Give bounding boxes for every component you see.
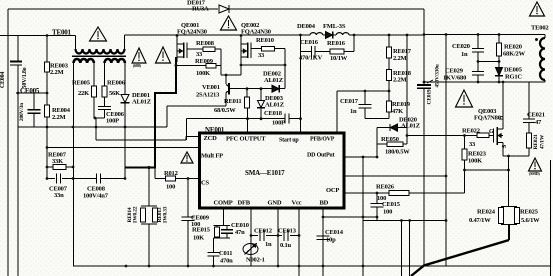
wire DD pin row [344, 156, 377, 158]
node DE001 CE008 [124, 177, 127, 180]
diode DE001 [124, 94, 126, 103]
svg-text:180/0.5W: 180/0.5W [385, 149, 410, 156]
node Vcc y235 [298, 234, 301, 237]
svg-text:CS: CS [201, 180, 209, 187]
node CE017 top [364, 90, 367, 93]
svg-text:CE014: CE014 [325, 229, 344, 236]
node PFC riser [246, 117, 249, 120]
wire thick QE001 source [175, 57, 177, 93]
svg-text:33K: 33K [52, 158, 63, 165]
transistor VE001 [225, 75, 227, 84]
node y61 link [477, 60, 480, 63]
wire CE018 row [187, 118, 286, 120]
svg-text:10/1W: 10/1W [330, 55, 348, 62]
node GND bus [277, 265, 280, 268]
svg-text:1KV/680: 1KV/680 [443, 75, 466, 82]
svg-text:RE022: RE022 [462, 128, 480, 135]
capacitor CE018 [284, 114, 286, 124]
svg-text:1n: 1n [461, 51, 468, 58]
wire rail N lower [17, 65, 19, 276]
node RE023 top [463, 134, 466, 137]
svg-text:10K: 10K [193, 235, 204, 242]
wire COMP pin [223, 208, 225, 226]
wire thick y167 [125, 166, 156, 168]
wire top bus left segment [8, 8, 218, 10]
svg-text:1n: 1n [265, 241, 272, 248]
wire DFB pin [250, 208, 252, 266]
resistor RE007 [53, 165, 66, 170]
svg-text:C011: C011 [219, 250, 232, 257]
diode DE020 [377, 127, 390, 129]
node CE009 top [187, 177, 190, 180]
svg-text:47n: 47n [235, 229, 245, 236]
capacitor CE008 [96, 174, 98, 184]
svg-text:VE001: VE001 [202, 84, 220, 91]
svg-text:RE008: RE008 [196, 40, 215, 47]
svg-text:RU3A: RU3A [192, 6, 209, 13]
node x446 [445, 175, 448, 178]
wire RE009 row [176, 65, 206, 67]
node QE001 drain [176, 34, 179, 37]
resistor RE013 [153, 208, 158, 222]
inductor DE004 bumps left [310, 33, 323, 35]
transformer TE001 secondary B lead right [124, 63, 126, 94]
transformer TE001 secondary A [74, 59, 94, 63]
svg-text:PFB/OVP: PFB/OVP [310, 137, 335, 143]
svg-text:100K: 100K [468, 158, 482, 165]
wire CE007 row [47, 178, 55, 180]
wire DE020 right node [406, 128, 408, 145]
svg-text:0.47/1W: 0.47/1W [469, 217, 491, 224]
svg-text:FQA7N80: FQA7N80 [474, 115, 501, 122]
svg-text:CE029: CE029 [445, 68, 464, 75]
capacitor CE009 [187, 179, 189, 218]
svg-text:50V/1.8o: 50V/1.8o [22, 67, 28, 88]
capacitor CE015 [376, 193, 378, 204]
wire x47 lower [46, 117, 48, 179]
wire BD pin [322, 208, 324, 276]
svg-text:DD OutPut: DD OutPut [307, 153, 335, 159]
svg-text:100V/4n7: 100V/4n7 [83, 193, 109, 200]
transformer TE001 secondary A lead [93, 63, 95, 86]
wire OCP row [344, 192, 389, 194]
wire ZCD y140 [96, 139, 186, 141]
node x47 93 [46, 92, 49, 95]
node VE001 ce [225, 74, 228, 77]
diode DE003 [260, 89, 262, 101]
wire out1 [401, 221, 403, 276]
svg-text:100K: 100K [196, 70, 210, 77]
resistor RE020 [498, 35, 500, 44]
wire x363 drop [362, 157, 364, 276]
resistor RE024 [501, 206, 517, 208]
node BD y217 [322, 216, 325, 219]
transistor QE003 [493, 129, 495, 143]
wire CE005 top [16, 92, 47, 94]
transistor QE001 [176, 36, 178, 63]
svg-text:2SA1213: 2SA1213 [196, 92, 220, 99]
wire R012 leads [155, 178, 166, 180]
svg-text:Mult FP: Mult FP [201, 153, 223, 160]
wire y82 row [424, 81, 541, 83]
wire x446 column [445, 35, 447, 267]
resistor RE025 [515, 208, 520, 224]
wire source row y156 [503, 155, 529, 157]
svg-text:RE006: RE006 [107, 80, 126, 87]
svg-text:47K: 47K [392, 108, 403, 115]
svg-text:CE013: CE013 [278, 228, 297, 235]
svg-text:RG1C: RG1C [505, 74, 522, 81]
capacitor CE019 [423, 35, 425, 85]
svg-text:470n: 470n [220, 258, 233, 265]
node CE016 branch [299, 34, 302, 37]
warning triangle T1 [90, 27, 107, 41]
resistor RE026 [389, 191, 409, 196]
resistor R012 [166, 176, 176, 181]
node OCP CE015 [376, 192, 379, 195]
warning triangle T4 [221, 16, 237, 30]
wire RE006 bottom [104, 97, 106, 107]
resistor RE021 [527, 133, 532, 148]
node Vcc bus [298, 265, 301, 268]
svg-text:CE016: CE016 [300, 39, 319, 46]
connector N002-1 [243, 244, 258, 255]
node CE005 top left [17, 92, 20, 95]
resistor RE023 [464, 136, 466, 150]
svg-text:2.2M: 2.2M [50, 69, 64, 76]
resistor RE014 [141, 205, 157, 207]
node GND y235 [277, 234, 280, 237]
svg-text:0.1u: 0.1u [280, 242, 292, 249]
node RE019 top [388, 90, 391, 93]
wire y220 row [363, 220, 446, 222]
IC NE001 SMA-E1017 [200, 133, 345, 208]
wire RE005 bottom [93, 97, 95, 118]
wire thick diagonal [411, 240, 509, 276]
svg-text:CE021: CE021 [527, 112, 545, 119]
warning triangle T7 [181, 152, 193, 163]
svg-text:N002-1: N002-1 [246, 257, 265, 264]
resistor RE011 [246, 89, 248, 97]
warning triangle T5 [456, 90, 473, 107]
wire x47 mid [46, 72, 48, 105]
transformer TE001 secondary B lead [104, 63, 106, 86]
svg-text:2.2M: 2.2M [393, 77, 407, 84]
wire CE008 row [73, 178, 96, 180]
svg-text:CE017: CE017 [340, 98, 359, 105]
wire y127 bus [18, 126, 167, 128]
svg-text:DE005: DE005 [504, 67, 523, 74]
node RE017 bus [388, 34, 391, 37]
wire R012 drop [154, 168, 156, 179]
resistor RE003 [45, 62, 50, 72]
wire x509 drop [508, 156, 510, 207]
capacitor CE007 [56, 174, 58, 184]
svg-text:100P: 100P [272, 120, 285, 127]
svg-text:GND: GND [268, 200, 282, 207]
svg-text:68K/2W: 68K/2W [503, 51, 526, 58]
wire staircase CE006 [94, 117, 105, 119]
resistor RE016 [330, 49, 344, 54]
node CE006 junction [94, 117, 97, 120]
svg-text:CE019: CE019 [427, 89, 433, 104]
svg-text:2.2M: 2.2M [52, 114, 66, 121]
transformer TE002 bottom lead [544, 80, 546, 82]
svg-text:47: 47 [535, 119, 542, 126]
wire y75 [221, 74, 241, 76]
wire y118 row [365, 118, 389, 120]
svg-text:33n: 33n [54, 192, 64, 199]
transformer TE001 primary lead right [124, 35, 126, 49]
svg-text:450V/330u: 450V/330u [435, 64, 441, 87]
svg-text:RE005: RE005 [72, 80, 91, 87]
svg-text:BD: BD [320, 200, 329, 207]
svg-text:RE019: RE019 [392, 101, 411, 108]
svg-text:RE020: RE020 [504, 44, 522, 51]
wire CE016 branch [300, 35, 302, 52]
wire RE013 pair bottom lead [148, 224, 150, 266]
wire thick sense drop [508, 225, 510, 241]
warning triangle T8 [529, 158, 542, 171]
svg-text:22K: 22K [78, 90, 89, 97]
resistor RE009 [206, 63, 216, 68]
svg-text:NE001: NE001 [205, 126, 225, 134]
svg-text:1n: 1n [350, 108, 357, 115]
wire y170 row [465, 169, 509, 171]
wire RE007 row [47, 166, 53, 168]
node DFB wire [250, 234, 253, 237]
svg-text:47/1W: 47/1W [540, 134, 546, 149]
diode DE002 [247, 88, 272, 90]
resistor RE050 [377, 143, 387, 145]
wire QE002 gate [251, 48, 262, 50]
svg-text:CE018: CE018 [264, 110, 283, 117]
transformer TE001 primary [76, 49, 125, 54]
node pair bus [148, 265, 151, 268]
node x407 bus [406, 34, 409, 37]
node C011 bus [212, 265, 215, 268]
svg-text:RE017: RE017 [393, 48, 412, 55]
svg-text:Start up: Start up [279, 138, 299, 144]
node DE003 top [260, 87, 263, 90]
svg-text:R012: R012 [164, 170, 178, 177]
svg-text:33: 33 [196, 51, 203, 58]
svg-text:RE024: RE024 [477, 209, 496, 216]
svg-text:SMA—E1017: SMA—E1017 [245, 169, 285, 177]
svg-text:100P: 100P [106, 118, 119, 125]
wire AC input node [0, 35, 76, 37]
wire y235 row [251, 235, 258, 237]
svg-text:FQA24N30: FQA24N30 [177, 29, 207, 36]
node RE009 left [175, 64, 178, 67]
wire RE010 right [275, 48, 286, 50]
wire Start up riser [300, 52, 302, 134]
resistor RE019 [388, 91, 390, 101]
svg-text:(SMD): (SMD) [529, 171, 540, 176]
node y82 dots [477, 81, 480, 84]
diode DE017 [219, 5, 229, 13]
wire x96 drop [95, 118, 97, 140]
wire rail L [7, 36, 9, 276]
wire QE001 gate [187, 48, 203, 50]
resistor RE005 [92, 86, 97, 97]
capacitor CE013 [283, 230, 285, 241]
svg-text:56K: 56K [109, 90, 120, 97]
svg-text:RE010: RE010 [256, 37, 274, 44]
wire x407 from bus [406, 35, 408, 128]
svg-text:RE023: RE023 [468, 151, 487, 158]
svg-text:DE004: DE004 [297, 23, 316, 30]
capacitor C011 [213, 238, 215, 253]
capacitor CE005 [33, 93, 35, 109]
svg-text:CE010: CE010 [231, 222, 249, 229]
resistor RE004 [45, 105, 50, 117]
warning triangle T2 [132, 48, 146, 63]
wire CE006 bottom [104, 110, 106, 119]
wire top bus right segment [229, 8, 424, 10]
resistor RE022 [477, 133, 489, 138]
svg-text:10p: 10p [326, 237, 336, 244]
svg-text:AL01Z: AL01Z [132, 99, 151, 106]
wire BD row [323, 216, 377, 218]
diode DE004 [323, 34, 326, 36]
svg-text:OCP: OCP [326, 187, 339, 194]
capacitor CE006 [98, 106, 111, 108]
wire PFB pin [336, 91, 338, 133]
svg-text:RE009: RE009 [195, 58, 214, 65]
wire GND pin [277, 208, 279, 266]
resistor RE018 [388, 58, 390, 70]
transistor QE002 [240, 36, 242, 76]
wire COMP loop [214, 225, 231, 227]
node x47 top [46, 34, 49, 37]
inductor DE004 bumps right [336, 33, 349, 35]
transformer TE001 primary lead left [75, 36, 77, 50]
node x363 [362, 156, 365, 159]
svg-text:470/1KV: 470/1KV [299, 55, 323, 62]
wire RE008 right [215, 48, 221, 50]
svg-text:Vcc: Vcc [292, 200, 302, 207]
node y170 [463, 169, 466, 172]
svg-text:PFC OUTPUT: PFC OUTPUT [226, 136, 266, 143]
svg-text:FML-3S: FML-3S [323, 23, 346, 30]
svg-text:TE001: TE001 [52, 29, 72, 37]
svg-text:CE020: CE020 [452, 43, 470, 50]
resistor RE010 [262, 46, 275, 51]
transformer TE001 secondary B [105, 59, 125, 63]
transformer TE001 core [72, 55, 126, 57]
node y147 left [46, 146, 49, 149]
wire y34 right [424, 34, 536, 36]
wire x73 vertical [73, 63, 75, 267]
svg-text:AL01Z: AL01Z [265, 102, 284, 109]
svg-text:AL01Z: AL01Z [264, 77, 283, 84]
wire top bus right drop [423, 9, 425, 35]
transformer TE002 winding [540, 38, 545, 80]
capacitor CE016 [311, 46, 313, 57]
wire drain bus [125, 34, 311, 36]
node Start up riser top [299, 117, 302, 120]
capacitor CE010 [226, 226, 228, 230]
node y34 dots [423, 33, 426, 36]
svg-text:CE012: CE012 [254, 228, 272, 235]
svg-text:RE025: RE025 [520, 209, 539, 216]
capacitor CE004 [10, 60, 22, 62]
node x407 y135 [406, 134, 409, 137]
svg-text:1W0.33: 1W0.33 [163, 206, 169, 223]
svg-text:33: 33 [258, 52, 265, 59]
capacitor CE020 [477, 35, 479, 49]
node dots y127 [46, 126, 49, 129]
wire CE015 tail [376, 217, 378, 221]
svg-text:RE004: RE004 [52, 107, 71, 114]
svg-text:COMP: COMP [214, 200, 233, 207]
svg-text:RE011: RE011 [224, 98, 241, 105]
node RE011 base [246, 87, 249, 90]
resistor RE006 [102, 86, 107, 97]
resistor RE017 [388, 35, 390, 47]
svg-text:RE016: RE016 [327, 40, 346, 47]
capacitor CE021 [528, 82, 530, 119]
svg-text:CE004: CE004 [0, 72, 6, 89]
svg-text:2.2M: 2.2M [393, 55, 407, 62]
wire rail N upper [17, 36, 19, 62]
node CE015 bottom [376, 216, 379, 219]
warning triangle T6 [530, 2, 545, 16]
node DD [376, 156, 379, 159]
svg-text:(680): (680) [133, 63, 142, 68]
svg-text:1W0.22: 1W0.22 [133, 206, 139, 223]
svg-text:FQA24N30: FQA24N30 [241, 29, 271, 36]
node QE002 drain [240, 34, 243, 37]
wire out2 [409, 221, 411, 276]
node CE007 ends [46, 177, 49, 180]
wire bottom bus [73, 265, 551, 267]
svg-text:68/0.5W: 68/0.5W [214, 107, 236, 114]
wire right edge [550, 160, 552, 276]
svg-text:33: 33 [469, 141, 476, 148]
wire thick jog [154, 92, 177, 94]
capacitor CE012 [259, 230, 261, 241]
svg-text:100: 100 [166, 184, 175, 191]
wire RE013 pair top lead [148, 168, 150, 207]
resistor RE008 [203, 47, 215, 52]
svg-text:CE005: CE005 [20, 87, 40, 95]
node QE003 drain top [502, 81, 505, 84]
svg-text:CE015: CE015 [382, 201, 401, 208]
svg-text:RE021: RE021 [533, 134, 539, 149]
wire y61 link [478, 61, 499, 63]
transformer TE002 top lead [536, 34, 545, 36]
wire Mult wire y147 [47, 147, 200, 149]
wire y91 [337, 90, 389, 92]
node CE019 y82 [423, 81, 426, 84]
wire DE020 left node [376, 128, 378, 158]
wire y65 QE002 [241, 64, 285, 66]
svg-text:5.6/1W: 5.6/1W [521, 217, 540, 224]
svg-text:TE002: TE002 [531, 25, 548, 32]
resistor RE015 [216, 226, 218, 228]
wire QE003 source [502, 143, 504, 157]
wire x47 upper [46, 36, 48, 63]
svg-text:100: 100 [383, 209, 392, 216]
wire thick x155 [154, 92, 156, 168]
node TE002 polarity dot [535, 38, 538, 41]
svg-text:CE008: CE008 [87, 186, 106, 193]
svg-text:RE050: RE050 [381, 136, 399, 143]
wire QE003 drain [502, 82, 504, 129]
node source row [507, 155, 510, 158]
